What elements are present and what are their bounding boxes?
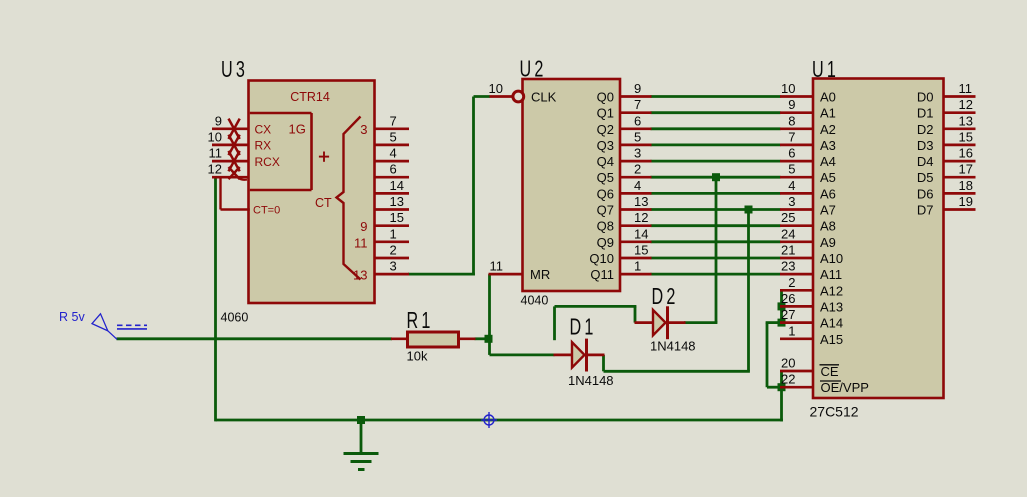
svg-text:2: 2	[634, 162, 641, 177]
svg-text:RX: RX	[255, 139, 272, 153]
svg-text:1N4148: 1N4148	[568, 373, 614, 388]
svg-text:4060: 4060	[221, 311, 249, 325]
svg-text:21: 21	[781, 243, 795, 258]
svg-text:Q9: Q9	[597, 235, 614, 250]
svg-text:U2: U2	[520, 57, 547, 82]
svg-text:15: 15	[634, 243, 648, 258]
svg-text:Q2: Q2	[597, 122, 614, 137]
svg-text:11: 11	[354, 235, 368, 250]
svg-text:D2: D2	[917, 122, 934, 137]
svg-text:9: 9	[215, 113, 222, 128]
svg-text:13: 13	[959, 113, 973, 128]
svg-text:24: 24	[781, 226, 795, 241]
svg-text:R1: R1	[407, 308, 434, 333]
svg-text:26: 26	[781, 291, 795, 306]
svg-text:A11: A11	[820, 267, 842, 282]
svg-text:25: 25	[781, 210, 795, 225]
svg-text:CT=0: CT=0	[253, 205, 280, 217]
svg-text:CX: CX	[255, 123, 272, 137]
svg-text:12: 12	[959, 97, 973, 112]
svg-text:CTR14: CTR14	[290, 90, 330, 104]
svg-text:12: 12	[208, 162, 222, 177]
svg-text:Q0: Q0	[597, 90, 614, 105]
svg-text:D1: D1	[917, 106, 934, 121]
svg-text:10: 10	[208, 129, 222, 144]
svg-text:22: 22	[781, 372, 795, 387]
svg-text:3: 3	[634, 146, 641, 161]
svg-text:23: 23	[781, 259, 795, 274]
svg-text:A9: A9	[820, 235, 836, 250]
svg-text:CLK: CLK	[531, 90, 557, 105]
svg-text:12: 12	[634, 210, 648, 225]
svg-text:A1: A1	[820, 106, 836, 121]
svg-text:A3: A3	[820, 138, 836, 153]
svg-text:D2: D2	[652, 285, 679, 310]
svg-text:4: 4	[390, 146, 397, 161]
svg-text:OE/VPP: OE/VPP	[821, 380, 869, 395]
svg-text:Q8: Q8	[597, 219, 614, 234]
svg-text:Q7: Q7	[597, 203, 614, 218]
svg-text:15: 15	[959, 129, 973, 144]
svg-text:11: 11	[209, 146, 223, 161]
svg-text:10: 10	[489, 81, 503, 96]
svg-text:11: 11	[959, 81, 973, 96]
svg-text:R 5v: R 5v	[59, 310, 85, 324]
svg-text:D1: D1	[570, 315, 597, 340]
svg-text:D0: D0	[917, 90, 934, 105]
svg-text:A2: A2	[820, 122, 836, 137]
svg-text:8: 8	[788, 113, 795, 128]
svg-text:CE: CE	[821, 364, 839, 379]
svg-text:U1: U1	[812, 57, 839, 82]
svg-text:1: 1	[634, 259, 641, 274]
svg-text:7: 7	[390, 113, 397, 128]
svg-text:2: 2	[390, 243, 397, 258]
svg-text:D4: D4	[917, 154, 934, 169]
svg-text:D7: D7	[917, 203, 934, 218]
svg-text:6: 6	[788, 146, 795, 161]
svg-text:5: 5	[634, 129, 641, 144]
svg-text:U3: U3	[221, 57, 248, 82]
svg-text:2: 2	[788, 275, 795, 290]
svg-text:13: 13	[390, 194, 404, 209]
svg-text:CT: CT	[315, 196, 332, 210]
svg-text:A0: A0	[820, 90, 836, 105]
svg-text:4: 4	[634, 178, 641, 193]
svg-text:D5: D5	[917, 170, 934, 185]
svg-text:Q1: Q1	[597, 106, 614, 121]
svg-text:Q3: Q3	[597, 138, 614, 153]
svg-text:10k: 10k	[407, 349, 428, 364]
svg-text:17: 17	[959, 162, 973, 177]
svg-text:19: 19	[959, 194, 973, 209]
svg-text:A14: A14	[820, 316, 843, 331]
svg-text:10: 10	[781, 81, 795, 96]
svg-text:A8: A8	[820, 219, 836, 234]
svg-text:14: 14	[634, 226, 648, 241]
svg-text:15: 15	[390, 210, 404, 225]
svg-text:7: 7	[788, 129, 795, 144]
svg-text:Q4: Q4	[597, 154, 614, 169]
svg-text:A6: A6	[820, 186, 836, 201]
svg-text:1: 1	[788, 323, 795, 338]
svg-text:9: 9	[360, 219, 367, 234]
svg-text:Q5: Q5	[597, 170, 614, 185]
svg-text:18: 18	[959, 178, 973, 193]
svg-text:4040: 4040	[521, 294, 549, 308]
svg-text:3: 3	[788, 194, 795, 209]
svg-text:A10: A10	[820, 251, 843, 266]
svg-text:RCX: RCX	[255, 155, 280, 169]
svg-text:A7: A7	[820, 203, 836, 218]
svg-text:1: 1	[390, 226, 397, 241]
svg-text:7: 7	[634, 97, 641, 112]
svg-text:9: 9	[634, 81, 641, 96]
svg-text:6: 6	[634, 113, 641, 128]
svg-text:A13: A13	[820, 299, 843, 314]
svg-text:9: 9	[788, 97, 795, 112]
svg-text:5: 5	[390, 129, 397, 144]
svg-text:20: 20	[781, 356, 795, 371]
svg-text:MR: MR	[530, 267, 550, 282]
svg-text:5: 5	[788, 162, 795, 177]
svg-text:16: 16	[959, 146, 973, 161]
svg-text:Q11: Q11	[590, 267, 614, 282]
svg-text:1N4148: 1N4148	[650, 339, 696, 354]
svg-text:27: 27	[781, 307, 795, 322]
svg-text:A12: A12	[820, 283, 843, 298]
svg-text:6: 6	[390, 162, 397, 177]
svg-text:Q6: Q6	[597, 186, 614, 201]
svg-text:D6: D6	[917, 186, 934, 201]
svg-text:1G: 1G	[289, 122, 306, 137]
svg-text:Q10: Q10	[589, 251, 614, 266]
svg-text:3: 3	[360, 122, 367, 137]
svg-text:4: 4	[788, 178, 795, 193]
svg-text:13: 13	[634, 194, 648, 209]
svg-text:A4: A4	[820, 154, 836, 169]
svg-text:14: 14	[390, 178, 404, 193]
svg-text:13: 13	[353, 268, 367, 283]
svg-text:D3: D3	[917, 138, 934, 153]
svg-text:27C512: 27C512	[810, 404, 859, 420]
svg-text:A15: A15	[820, 332, 843, 347]
svg-text:11: 11	[490, 259, 504, 274]
svg-text:3: 3	[390, 259, 397, 274]
svg-text:A5: A5	[820, 170, 836, 185]
